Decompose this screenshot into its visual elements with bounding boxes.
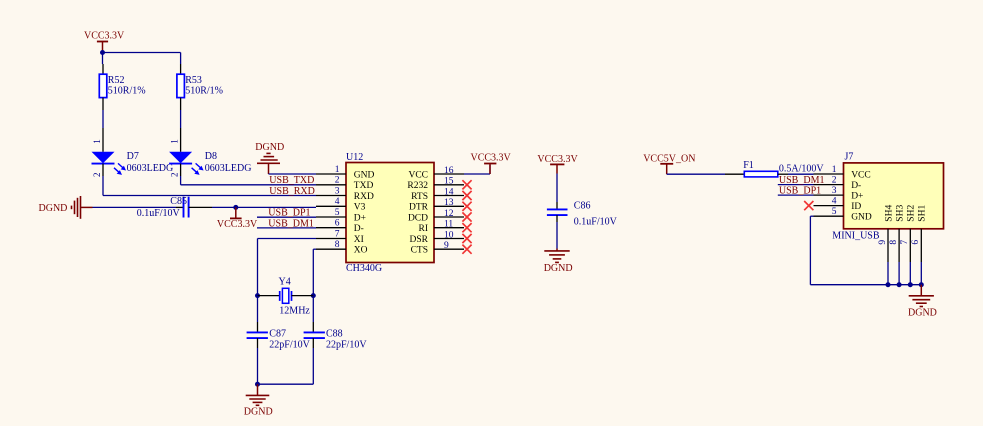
U12 pin 14 RTS (411, 187, 471, 202)
svg-text:D7: D7 (127, 151, 139, 162)
J7 pin 7 SH2 (900, 205, 917, 285)
svg-text:DGND: DGND (39, 203, 68, 214)
resistor R53 510R/1% (177, 64, 223, 110)
svg-text:C88: C88 (326, 328, 343, 339)
U12 pin 13 DTR (409, 198, 472, 213)
svg-text:CH340G: CH340G (346, 263, 382, 274)
wire Y4 left to C87 (257, 296, 259, 333)
net label USB_RXD (269, 186, 315, 197)
svg-text:D8: D8 (205, 151, 217, 162)
junction (XO / Y4 / C88) (311, 293, 316, 298)
svg-text:9: 9 (444, 241, 449, 251)
U12 pin 8 XO (316, 240, 368, 256)
U12 pin 16 VCC (408, 166, 464, 181)
fuse F1 0.5A/100V (743, 160, 778, 177)
svg-text:RTS: RTS (411, 192, 428, 202)
wire net USB_DP1 to U12 D+ (257, 216, 316, 218)
svg-text:6: 6 (911, 240, 921, 245)
svg-text:VCC3.3V: VCC3.3V (471, 153, 512, 164)
U12 pin 1 GND (316, 165, 375, 181)
svg-text:12MHz: 12MHz (279, 305, 310, 316)
svg-text:0.5A/100V: 0.5A/100V (779, 164, 825, 175)
wire Y4 right to C88 (312, 296, 314, 333)
wire D8 cathode to U12 TXD (net USB_TXD) (181, 164, 316, 185)
svg-text:D+: D+ (354, 213, 366, 223)
svg-text:V3: V3 (354, 203, 366, 213)
svg-text:22pF/10V: 22pF/10V (269, 339, 310, 350)
svg-text:510R/1%: 510R/1% (185, 85, 223, 96)
svg-text:DCD: DCD (408, 213, 428, 223)
U12 pin 11 RI (419, 220, 472, 235)
wire J7 GND to shield bus (810, 216, 921, 285)
svg-text:1: 1 (335, 165, 340, 175)
crystal Y4 12MHz (258, 276, 314, 316)
J7 pin 4 ID (804, 196, 861, 212)
wire net USB_DP1 to J7 D+ (778, 194, 814, 196)
svg-text:DSR: DSR (410, 235, 429, 245)
J7 pin 3 D+ (814, 186, 864, 202)
net label USB_DM1 (J7) (779, 175, 825, 186)
U12 pin 6 D- (316, 219, 364, 235)
J7 pin 5 GND (814, 207, 872, 223)
wire DGND to U12 GND pin 1 (269, 173, 317, 175)
LED D8 0603LEDG (169, 139, 251, 177)
svg-text:10: 10 (444, 230, 454, 240)
J7 pin 9 SH4 (878, 205, 895, 285)
svg-text:XI: XI (354, 235, 364, 245)
U12 pin 7 XI (316, 229, 364, 245)
capacitor C88 22pF/10V (304, 328, 368, 350)
svg-text:13: 13 (444, 198, 454, 208)
net label USB_DM1 (268, 218, 314, 229)
svg-text:J7: J7 (845, 152, 854, 163)
svg-text:14: 14 (444, 187, 454, 197)
U12 pin 9 CTS (411, 241, 472, 256)
resistor R52 510R/1% (99, 64, 145, 110)
svg-text:R232: R232 (407, 181, 428, 191)
svg-text:SH3: SH3 (895, 205, 905, 222)
ground DGND (above U12 GND pin, inverted) (255, 142, 284, 174)
U12 pin 2 TXD (316, 176, 373, 192)
power VCC5V_ON (643, 154, 695, 175)
capacitor C87 22pF/10V (247, 328, 311, 350)
U12 pin 3 RXD (316, 186, 374, 202)
svg-text:GND: GND (851, 213, 872, 223)
wire D7 cathode to U12 RXD (net USB_RXD) (103, 164, 316, 196)
U12 pin 10 DSR (410, 230, 472, 245)
net label USB_DP1 (268, 208, 310, 219)
svg-text:R52: R52 (108, 75, 125, 86)
U12 pin 5 D+ (316, 208, 366, 224)
power VCC3.3V (C86) (537, 154, 578, 174)
svg-text:RXD: RXD (354, 192, 374, 202)
junction (C87 / bus / ground) (255, 382, 260, 387)
LED D7 0603LEDG (92, 139, 174, 177)
svg-text:22pF/10V: 22pF/10V (326, 339, 367, 350)
wire net USB_DM1 to J7 D- (778, 184, 814, 186)
svg-text:1: 1 (92, 139, 102, 144)
svg-text:11: 11 (444, 220, 453, 230)
svg-text:510R/1%: 510R/1% (108, 85, 146, 96)
svg-text:12: 12 (444, 209, 454, 219)
ground DGND (J7 shield) (908, 285, 937, 319)
ground DGND (crystal) (244, 384, 273, 417)
wire VCC3.3V to C86 (556, 174, 558, 210)
svg-text:D-: D- (354, 224, 364, 234)
net label USB_TXD (269, 175, 314, 186)
connector J7 MINI_USB body (832, 152, 943, 242)
svg-text:7: 7 (900, 240, 910, 245)
svg-text:VCC3.3V: VCC3.3V (217, 219, 258, 230)
svg-text:USB_RXD: USB_RXD (269, 186, 315, 197)
svg-text:D-: D- (851, 181, 861, 191)
junction (shield bus) (897, 282, 902, 287)
wire U12 VCC to power (464, 165, 490, 174)
svg-text:8: 8 (889, 240, 899, 245)
svg-text:CTS: CTS (411, 246, 428, 256)
svg-text:USB_DM1: USB_DM1 (268, 218, 314, 229)
J7 pin 8 SH3 (889, 205, 905, 285)
svg-text:TXD: TXD (354, 181, 374, 191)
svg-text:2: 2 (832, 175, 837, 185)
svg-text:9: 9 (878, 240, 888, 245)
svg-text:VCC: VCC (408, 170, 428, 180)
value label 0.5A/100V (779, 164, 825, 175)
junction (shield bus) (908, 282, 913, 287)
svg-text:GND: GND (354, 170, 375, 180)
J7 pin 2 D- (814, 175, 862, 191)
svg-text:4: 4 (335, 197, 340, 207)
svg-text:16: 16 (444, 166, 454, 176)
wire C85 to U12 V3 (189, 206, 316, 208)
J7 pin 6 SH1 (911, 205, 928, 285)
svg-text:DGND: DGND (255, 142, 284, 153)
svg-text:1: 1 (170, 139, 180, 144)
svg-text:0603LEDG: 0603LEDG (205, 163, 252, 174)
power VCC3.3V (U12 VCC) (471, 153, 512, 175)
wire DGND to C85 (93, 206, 184, 208)
svg-text:6: 6 (335, 219, 340, 229)
U12 pin 15 R232 (407, 177, 471, 192)
power VCC3.3V (top left) (84, 31, 125, 53)
svg-text:D+: D+ (851, 191, 863, 201)
svg-text:RI: RI (419, 224, 429, 234)
svg-text:VCC: VCC (851, 170, 871, 180)
svg-text:15: 15 (444, 177, 454, 187)
wire C87 down (257, 338, 259, 384)
junction (XI / Y4 / C87) (255, 293, 260, 298)
svg-text:USB_TXD: USB_TXD (269, 175, 314, 186)
svg-text:R53: R53 (185, 75, 202, 86)
junction (VCC3.3V / R52 / R53) (100, 50, 105, 55)
svg-text:8: 8 (335, 240, 340, 250)
svg-text:DGND: DGND (908, 308, 937, 319)
svg-text:3: 3 (832, 186, 837, 196)
wire bottom bus C87-C88 (258, 383, 314, 385)
ground DGND (C86) (544, 249, 573, 275)
svg-text:VCC3.3V: VCC3.3V (537, 154, 578, 165)
svg-text:DGND: DGND (544, 263, 573, 274)
svg-text:MINI_USB: MINI_USB (832, 231, 880, 242)
svg-text:SH2: SH2 (907, 205, 917, 222)
wire U12 XO to crystal (313, 249, 316, 295)
svg-text:U12: U12 (346, 152, 363, 163)
wire U12 XI to crystal (258, 239, 317, 296)
capacitor C85 0.1uF/10V (137, 196, 189, 219)
svg-text:ID: ID (851, 202, 861, 212)
svg-text:5: 5 (832, 207, 837, 217)
J7 pin 1 VCC (814, 165, 871, 181)
svg-text:0.1uF/10V: 0.1uF/10V (137, 208, 181, 219)
svg-text:C85: C85 (170, 196, 187, 207)
svg-text:5: 5 (335, 208, 340, 218)
power VCC3.3V (V3 tap) (217, 207, 258, 230)
svg-text:USB_DP1: USB_DP1 (268, 208, 310, 219)
svg-text:XO: XO (354, 246, 368, 256)
svg-text:SH1: SH1 (918, 205, 928, 222)
svg-text:C87: C87 (269, 328, 286, 339)
svg-text:3: 3 (335, 186, 340, 196)
wire VCC3.3V to R52/R53 tops (103, 53, 181, 65)
svg-text:2: 2 (170, 172, 180, 177)
svg-text:2: 2 (335, 176, 340, 186)
wire net USB_DM1 to U12 D- (257, 227, 316, 229)
wire F1 to J7 VCC (778, 173, 814, 175)
wire VCC5V_ON to F1 (667, 173, 745, 175)
wire R53 to D8 (180, 110, 182, 152)
wire C88 down (312, 338, 314, 384)
wire C86 to ground (556, 215, 558, 248)
op-amp U12 CH340G body (346, 152, 434, 274)
capacitor C86 0.1uF/10V (547, 201, 618, 228)
svg-text:DGND: DGND (244, 406, 273, 417)
junction (shield bus) (919, 282, 924, 287)
U12 pin 4 V3 (316, 197, 366, 213)
junction (V3 / VCC3.3V tap) (233, 205, 238, 210)
svg-text:1: 1 (832, 165, 837, 175)
svg-text:0603LEDG: 0603LEDG (127, 163, 174, 174)
svg-text:4: 4 (832, 196, 837, 206)
svg-text:C86: C86 (574, 201, 591, 212)
svg-text:DTR: DTR (409, 203, 429, 213)
U12 pin 12 DCD (408, 209, 472, 224)
svg-text:Y4: Y4 (279, 276, 291, 287)
svg-text:0.1uF/10V: 0.1uF/10V (574, 217, 618, 228)
svg-text:VCC3.3V: VCC3.3V (84, 31, 125, 42)
svg-text:7: 7 (335, 229, 340, 239)
net label USB_DP1 (J7) (779, 186, 821, 197)
junction (shield bus) (886, 282, 891, 287)
ground DGND (left, sideways) (39, 196, 93, 219)
wire R52 to D7 (102, 110, 104, 152)
svg-text:F1: F1 (743, 160, 754, 171)
svg-text:2: 2 (92, 172, 102, 177)
svg-text:SH4: SH4 (884, 205, 894, 222)
